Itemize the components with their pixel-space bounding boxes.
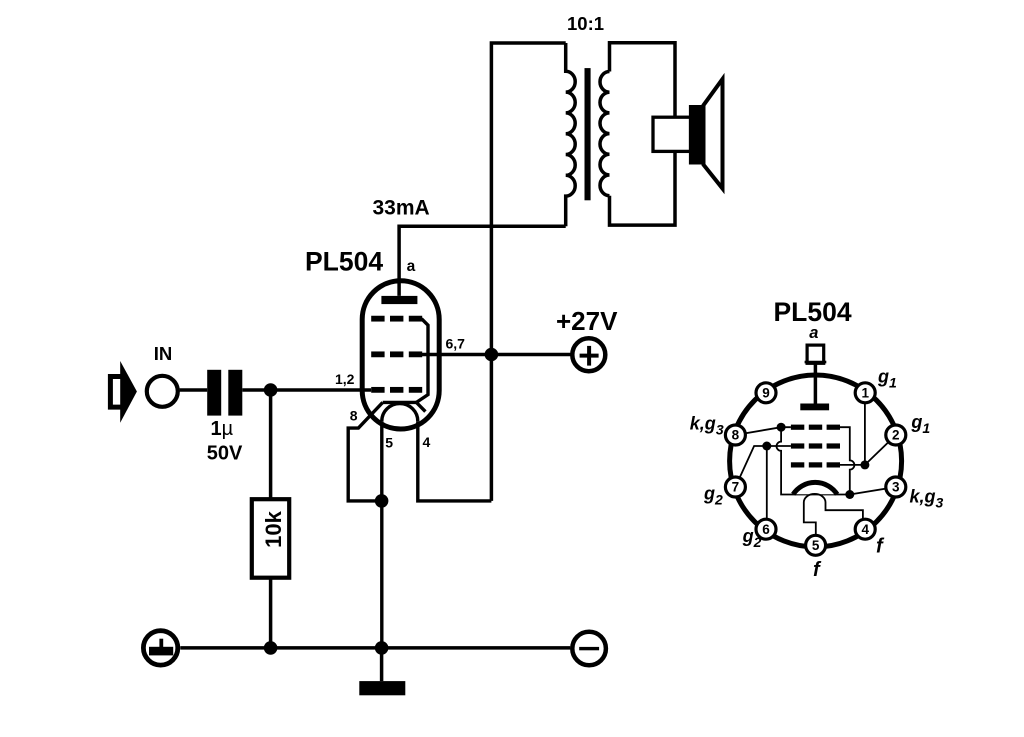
svg-text:33mA: 33mA bbox=[373, 197, 430, 220]
svg-text:4: 4 bbox=[423, 434, 431, 450]
svg-text:10k: 10k bbox=[261, 510, 286, 547]
svg-text:4: 4 bbox=[861, 522, 869, 537]
svg-text:3: 3 bbox=[892, 480, 900, 495]
svg-text:5: 5 bbox=[385, 435, 393, 451]
svg-text:7: 7 bbox=[732, 480, 740, 495]
svg-text:10:1: 10:1 bbox=[567, 13, 604, 34]
svg-text:IN: IN bbox=[154, 343, 173, 364]
svg-text:1,2: 1,2 bbox=[335, 371, 355, 387]
svg-text:1µ: 1µ bbox=[211, 418, 234, 440]
svg-text:50V: 50V bbox=[207, 443, 243, 465]
svg-text:PL504: PL504 bbox=[305, 247, 383, 277]
svg-text:a: a bbox=[809, 324, 818, 342]
svg-text:6: 6 bbox=[762, 522, 770, 537]
svg-text:9: 9 bbox=[762, 385, 770, 400]
svg-text:1: 1 bbox=[861, 385, 869, 400]
svg-text:6,7: 6,7 bbox=[446, 335, 466, 351]
svg-text:5: 5 bbox=[812, 538, 820, 553]
svg-text:8: 8 bbox=[732, 428, 740, 443]
svg-text:8: 8 bbox=[350, 408, 358, 424]
svg-text:a: a bbox=[407, 258, 416, 275]
svg-text:2: 2 bbox=[892, 428, 900, 443]
svg-text:PL504: PL504 bbox=[774, 297, 852, 327]
svg-text:+27V: +27V bbox=[556, 306, 618, 336]
